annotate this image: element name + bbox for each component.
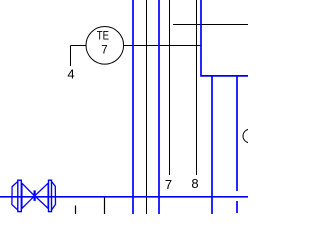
wire: elbow drop at node 4 (70, 46, 72, 67)
instrument bubble (partial, right edge) (243, 129, 257, 143)
valve left triangle (22, 183, 35, 208)
svg-text:4: 4 (67, 67, 74, 82)
valve disc stem (33, 190, 35, 201)
valve right hub arc (52, 182, 56, 210)
wire: instrument tap line from elbow to TE bubble and across to blue riser (71, 45, 87, 47)
wire: black drop below pipe x=104 (104, 197, 106, 214)
wire: black vertical line x=146 (146, 0, 148, 214)
wire: blue vertical line x=159 (158, 0, 160, 214)
svg-text:TE: TE (97, 30, 109, 42)
wire: main process pipe (0, 196, 248, 198)
wire: blue branch drop x=236.5 (broken at crossing) (236, 75, 238, 191)
valve right flange face (49, 180, 52, 211)
wire: dashed instrument tap below pipe x=75 (75, 206, 77, 215)
valve left flange face (18, 180, 22, 211)
svg-text:8: 8 (191, 176, 198, 191)
wire: black vertical line 7 (169, 0, 171, 175)
wire: blue branch drop x=212 (211, 75, 213, 214)
svg-text:7: 7 (165, 177, 172, 192)
valve right triangle (35, 183, 48, 208)
valve left hub arc (12, 182, 18, 210)
svg-text:7: 7 (101, 45, 107, 57)
wire: blue vertical line x=132.5 (132, 0, 134, 214)
valve V1 (flanged butterfly valve) (12, 180, 56, 211)
wire: black vertical line 8 (196, 0, 198, 175)
instrument bubble TE 7 (86, 27, 124, 65)
wire: horizontal black line top right (173, 24, 248, 26)
wire: blue elbow riser x=200.5 down to header (201, 0, 248, 76)
